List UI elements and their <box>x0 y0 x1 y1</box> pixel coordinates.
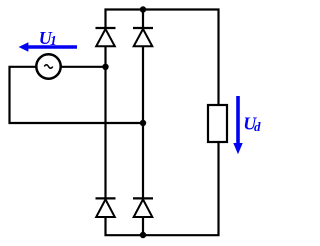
diode D3 <box>96 198 116 217</box>
wire top rail with corners <box>106 10 219 105</box>
wire bottom rail with corners <box>106 142 219 235</box>
AC source G1 <box>36 54 60 78</box>
junction dot loop-middle branch <box>140 120 146 126</box>
junction dot source-left branch <box>102 64 108 70</box>
diode D2 <box>133 28 153 46</box>
junction dot bottom middle <box>140 232 146 238</box>
diode D1 <box>96 28 116 46</box>
diode D4 <box>133 198 153 217</box>
wire middle branch middle <box>142 47 144 199</box>
wire source right to left branch <box>61 66 106 68</box>
svg-text:d: d <box>254 119 261 134</box>
arrow Ud <box>233 96 242 154</box>
wire source left loop to middle branch <box>10 67 144 123</box>
wire middle branch upper <box>142 10 144 29</box>
wire middle branch lower <box>142 217 144 235</box>
resistor Rd load <box>208 105 227 142</box>
wire left branch middle <box>104 47 106 199</box>
junction dot top middle <box>140 6 146 12</box>
arrow U1 <box>19 42 77 51</box>
